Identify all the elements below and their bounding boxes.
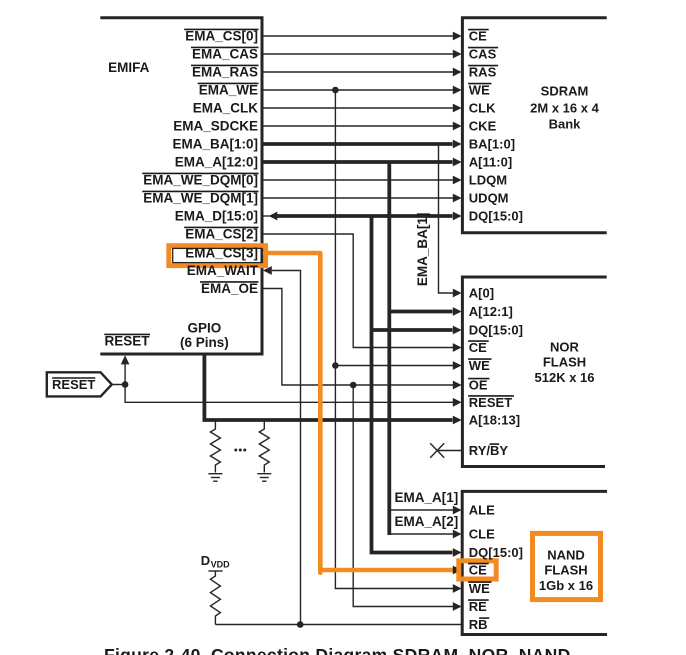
svg-text:CE: CE (469, 29, 487, 44)
pin label EMA_CAS (191, 47, 259, 62)
callout rect around EMA_CS[3] label (thin black) (173, 248, 262, 262)
svg-text:EMA_CS[2]: EMA_CS[2] (185, 227, 258, 242)
label GPIO (6 Pins) (180, 321, 229, 350)
wire bus EMA_D[15:0] bidirectional to SDRAM DQ[15:0] (263, 212, 461, 221)
pin label EMA_RAS (191, 65, 259, 80)
node junction EMA_OE branch to NAND RE (350, 382, 357, 389)
pin label EMA_WE_DQM[1] (142, 191, 258, 206)
NAND pin label RE (468, 599, 489, 614)
wire EMA_WAIT from NAND RB (263, 266, 301, 624)
svg-text:2M x 16 x 4: 2M x 16 x 4 (530, 101, 599, 116)
arrowhead NAND CE (over orange wire, under orange frame) (453, 566, 462, 575)
wire pull-up rail to NAND RB (215, 624, 461, 626)
pin label EMA_CS[0] (184, 29, 258, 44)
SDRAM pin label WE (468, 83, 491, 98)
resistor R pull-up DVDD to NAND RB (210, 571, 220, 625)
svg-text:SDRAM: SDRAM (541, 84, 589, 99)
label DVDD (201, 553, 230, 570)
wire EMA_SDCKE to SDRAM CKE (263, 122, 462, 131)
highlight frame around NAND CE pin (orange) (459, 561, 496, 579)
node junction at NOR WE (332, 362, 339, 369)
svg-text:WE: WE (469, 581, 490, 596)
wire EMA_WE vertical branch down to NAND WE (335, 90, 453, 589)
svg-text:1Gb x 16: 1Gb x 16 (539, 578, 593, 593)
svg-text:A[12:1]: A[12:1] (469, 304, 513, 319)
svg-text:EMA_WAIT: EMA_WAIT (187, 263, 259, 278)
RESET input pentagon (47, 372, 112, 396)
wire EMA_CAS to SDRAM CAS (263, 50, 462, 59)
wire EMA_WE_DQM[0] to SDRAM LDQM (263, 176, 462, 185)
svg-text:OE: OE (469, 378, 488, 393)
svg-text:CAS: CAS (469, 47, 497, 62)
block EMIFA box (100, 18, 262, 354)
power rail DVDD bar (208, 570, 222, 572)
arrowhead NAND WE (453, 584, 462, 593)
svg-text:EMA_CS[3]: EMA_CS[3] (185, 245, 258, 260)
svg-text:UDQM: UDQM (469, 191, 509, 206)
svg-text:NOR: NOR (550, 340, 580, 355)
label RESET in pentagon (52, 377, 95, 392)
svg-text:EMA_BA[1:0]: EMA_BA[1:0] (172, 137, 258, 152)
wire highlighted EMA_CS[3] to NAND CE (orange) (265, 253, 459, 570)
wire EMA_OE to NOR OE (263, 289, 462, 390)
label NOR FLASH title (535, 340, 595, 385)
wire GPIO bus to NOR A[18:13] (204, 355, 461, 424)
NOR pin label CE (468, 340, 489, 355)
svg-text:GPIO: GPIO (188, 321, 222, 336)
svg-text:Figure 2-40. Connection Diagra: Figure 2-40. Connection Diagram SDRAM, N… (104, 645, 571, 655)
node X no-connect at NOR RY/BY (430, 443, 461, 457)
svg-text:EMA_WE_DQM[0]: EMA_WE_DQM[0] (143, 173, 258, 188)
ground for R pull 2 (257, 474, 271, 482)
NOR pin label WE (468, 358, 491, 373)
NAND pin label CE highlighted (468, 563, 489, 578)
label SDRAM title (530, 84, 599, 132)
svg-text:CLK: CLK (469, 101, 496, 116)
svg-text:RE: RE (469, 599, 487, 614)
svg-text:EMA_WE_DQM[1]: EMA_WE_DQM[1] (143, 191, 258, 206)
svg-text:FLASH: FLASH (544, 562, 587, 577)
wire EMA_A[2] to NAND CLE (389, 530, 461, 539)
svg-text:RY/BY: RY/BY (469, 443, 509, 458)
svg-text:Bank: Bank (549, 117, 582, 132)
svg-text:LDQM: LDQM (469, 173, 507, 188)
wire EMA_CS[0] to SDRAM CE (263, 32, 462, 41)
svg-text:DQ[15:0]: DQ[15:0] (469, 545, 523, 560)
NOR pin label RY/BY (469, 443, 509, 458)
svg-text:(6 Pins): (6 Pins) (180, 335, 229, 350)
svg-text:EMA_BA[1]: EMA_BA[1] (415, 213, 430, 287)
svg-text:CE: CE (469, 563, 487, 578)
svg-text:EMIFA: EMIFA (108, 60, 150, 75)
svg-text:CLE: CLE (469, 527, 495, 542)
SDRAM pin label CAS (468, 47, 498, 62)
node junction EMA_WE branch (332, 87, 339, 94)
svg-text:EMA_CS[0]: EMA_CS[0] (185, 29, 258, 44)
wire bus EMA_BA[1:0] to SDRAM BA[1:0] (263, 140, 462, 149)
NAND pin label RB (469, 617, 490, 632)
wire EMA_CS[2] to NOR CE (263, 234, 462, 352)
resistor R pull 2 (GPIO) (259, 420, 269, 473)
svg-text:A[11:0]: A[11:0] (469, 155, 512, 170)
svg-text:RAS: RAS (469, 65, 497, 80)
svg-text:EMA_A[12:0]: EMA_A[12:0] (175, 155, 258, 170)
pin label EMA_OE (200, 281, 259, 296)
svg-text:A[18:13]: A[18:13] (469, 413, 520, 428)
svg-text:DQ[15:0]: DQ[15:0] (469, 323, 523, 338)
svg-text:EMA_A[1]: EMA_A[1] (395, 490, 459, 505)
svg-text:512K x 16: 512K x 16 (535, 370, 595, 385)
svg-text:EMA_OE: EMA_OE (201, 281, 258, 296)
svg-text:WE: WE (469, 358, 490, 373)
svg-text:RB: RB (469, 617, 488, 632)
wire bus branch to NOR A[12:1] (389, 307, 461, 316)
wire bus EMA_A vertical branch (387, 162, 391, 535)
resistor R pull 1 (GPIO) (210, 420, 220, 473)
svg-text:NAND: NAND (547, 548, 585, 563)
wire branch to NOR WE (335, 361, 461, 370)
wire bus EMA_D vertical branch down to NAND DQ[15:0] (372, 216, 462, 557)
svg-text:EMA_WE: EMA_WE (199, 83, 258, 98)
svg-text:RESET: RESET (104, 334, 150, 349)
NAND pin label WE (468, 581, 491, 596)
pin label EMA_CS[2] (184, 227, 258, 242)
wire RESET arrow up into EMIFA (121, 355, 130, 384)
svg-text:EMA_A[2]: EMA_A[2] (395, 514, 459, 529)
ellipsis dots between resistors (234, 449, 246, 452)
svg-text:RESET: RESET (469, 395, 512, 410)
wire EMA_CLK to SDRAM CLK (263, 104, 462, 113)
NOR pin label RESET (468, 395, 514, 410)
pin label EMA_WE (198, 83, 259, 98)
svg-text:CE: CE (469, 340, 487, 355)
wire EMA_BA[1] branch down to NOR A[0] (439, 145, 462, 297)
svg-text:EMA_CAS: EMA_CAS (192, 47, 258, 62)
svg-text:EMA_RAS: EMA_RAS (192, 65, 258, 80)
block SDRAM box (open right) (462, 18, 606, 233)
wire bus branch to NOR DQ[15:0] (372, 326, 462, 335)
svg-text:BA[1:0]: BA[1:0] (469, 137, 515, 152)
node junction RESET (122, 381, 129, 388)
wire EMA_A[1] to NAND ALE (389, 506, 461, 515)
pin label EMA_WE_DQM[0] (142, 173, 258, 188)
svg-text:A[0]: A[0] (469, 286, 494, 301)
svg-text:VDD: VDD (211, 560, 231, 570)
pin label RESET (EMIFA bottom) (104, 334, 150, 349)
svg-text:WE: WE (469, 83, 490, 98)
wire RESET net to NOR RESET (112, 385, 462, 407)
svg-text:EMA_SDCKE: EMA_SDCKE (173, 119, 258, 134)
svg-text:ALE: ALE (469, 503, 495, 518)
SDRAM pin label CE (468, 29, 489, 44)
svg-text:DQ[15:0]: DQ[15:0] (469, 209, 523, 224)
block NOR FLASH box (open right) (462, 277, 606, 467)
wire EMA_WE to SDRAM WE (263, 86, 462, 95)
wire bus EMA_A[12:0] to SDRAM A[11:0] (263, 158, 462, 167)
svg-text:EMA_CLK: EMA_CLK (193, 101, 259, 116)
svg-text:D: D (201, 553, 210, 568)
ground for R pull 1 (208, 474, 222, 482)
svg-text:FLASH: FLASH (543, 355, 586, 370)
highlight frame around EMA_CS[3] label (orange) (169, 246, 266, 266)
wire EMA_RAS to SDRAM RAS (263, 68, 462, 77)
svg-text:EMA_D[15:0]: EMA_D[15:0] (175, 209, 258, 224)
svg-text:RESET: RESET (52, 377, 95, 392)
highlight frame around NAND FLASH title (orange) (533, 533, 601, 599)
label NAND FLASH title (539, 548, 593, 593)
NOR pin label OE (468, 378, 489, 393)
wire branch down to NAND RE (353, 385, 461, 611)
block NAND FLASH box (open right) (462, 491, 607, 634)
node junction EMA_WAIT and RB (297, 621, 304, 628)
wire EMA_WE_DQM[1] to SDRAM UDQM (263, 194, 462, 203)
SDRAM pin label RAS (468, 65, 498, 80)
svg-text:CKE: CKE (469, 119, 497, 134)
